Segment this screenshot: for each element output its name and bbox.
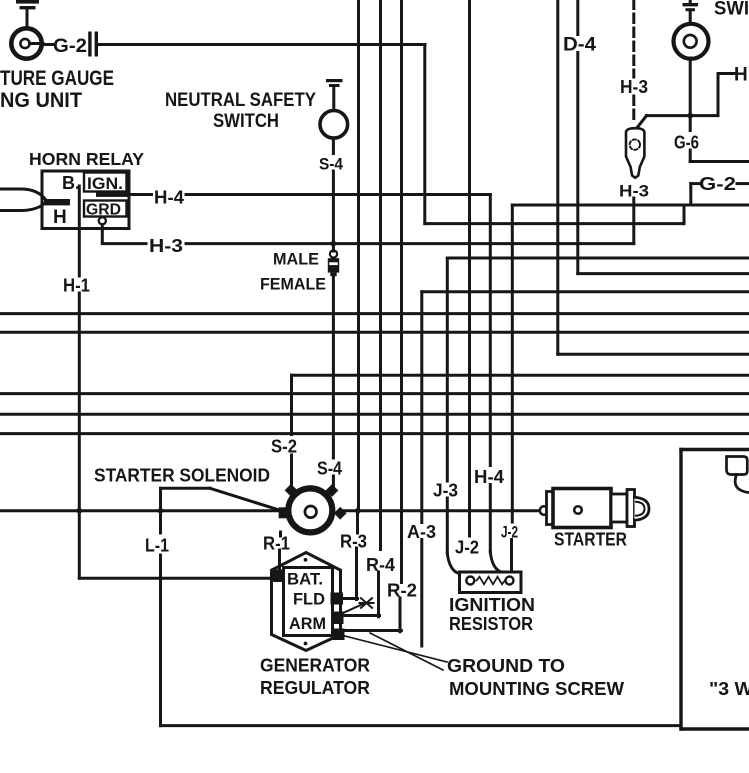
leader line to ground note (b)	[370, 633, 443, 670]
wire column H-4 x=490.3	[490, 195, 505, 576]
svg-text:J-3: J-3	[433, 481, 458, 501]
wire R-1 column x=280	[280, 532, 281, 570]
svg-text:ARM: ARM	[289, 615, 326, 633]
connector (bulkhead double-bar)	[88, 32, 98, 57]
starter solenoid	[279, 484, 347, 532]
wire battery feed y=510.8 left	[0, 509, 279, 512]
svg-text:J-2: J-2	[455, 538, 479, 558]
svg-text:R-1: R-1	[263, 534, 290, 554]
svg-text:SWITCH: SWITCH	[213, 111, 279, 132]
wire column A-3 x=421.8	[420, 292, 423, 646]
plug wires entering horn relay from left	[0, 189, 70, 211]
junction dot R-3 tap / feed	[354, 507, 362, 515]
wire column J-3 x=447.3	[447, 258, 466, 578]
svg-text:STARTER SOLENOID: STARTER SOLENOID	[94, 466, 270, 486]
wire ignition switch column x=690.2	[690, 58, 749, 162]
wire gauge G-2 vertical x=424.8	[423, 45, 426, 224]
wire dashed H-3 column x=633.8	[632, 0, 635, 124]
svg-text:NEUTRAL SAFETY: NEUTRAL SAFETY	[165, 90, 316, 111]
junction dot L-1 / feed	[157, 507, 165, 515]
wire bus y=332.2	[0, 331, 749, 334]
svg-text:IGNITION: IGNITION	[449, 595, 535, 615]
wire bus y=393.6	[0, 392, 749, 395]
svg-text:RESISTOR: RESISTOR	[449, 614, 533, 634]
wire bus y=433.6	[0, 432, 749, 435]
wire H-1 to BAT y=578.2	[79, 577, 272, 580]
wire G-2 horizontal y=44.5	[98, 43, 425, 46]
wire H-4 horizontal y=194.5	[128, 193, 490, 196]
wire feed solenoid to starter y=510.8	[342, 509, 541, 512]
wire bullet to H-3 lower x=633.8	[632, 198, 635, 244]
wire gauge to G-2 label	[42, 43, 53, 46]
svg-text:STARTER: STARTER	[554, 530, 627, 550]
svg-text:FLD: FLD	[293, 591, 325, 609]
svg-text:SWI: SWI	[714, 0, 749, 20]
wire GRD down to H-3	[101, 225, 104, 243]
wire column x=557.8	[556, 0, 559, 354]
svg-text:S-4: S-4	[319, 155, 343, 174]
wire H-4 stub from IGN	[96, 192, 128, 197]
ignition key symbol	[727, 457, 749, 493]
wire column R-3 feed x=358.5	[343, 0, 359, 600]
starter motor	[540, 489, 649, 528]
wire y=354.2	[558, 353, 749, 356]
wire y=258	[447, 257, 749, 260]
wire stub x=684	[683, 205, 686, 224]
svg-text:H-3: H-3	[620, 77, 648, 97]
large box lower right	[681, 450, 749, 730]
wire bottom y=725.6	[161, 724, 682, 727]
regulator BAT terminal	[273, 570, 285, 583]
svg-text:H-4: H-4	[474, 467, 504, 487]
wire column R-4 feed x=380.5	[344, 0, 381, 617]
svg-text:H-3: H-3	[149, 236, 183, 256]
svg-text:G-6: G-6	[674, 133, 699, 153]
svg-text:D-4: D-4	[563, 35, 596, 56]
wire H-1 column lower	[78, 293, 81, 578]
svg-text:FEMALE: FEMALE	[260, 275, 326, 294]
svg-text:B.: B.	[62, 173, 80, 193]
svg-text:GROUND TO: GROUND TO	[447, 656, 565, 676]
wire G-2 right label bracket	[691, 184, 749, 205]
wire column J-2a x=469.5	[468, 0, 471, 536]
svg-text:REGULATOR: REGULATOR	[260, 678, 370, 698]
horn relay GRD terminal box	[84, 201, 127, 217]
svg-text:J-2: J-2	[501, 523, 518, 542]
wire bus y=313.6	[0, 312, 749, 315]
wire S-4 below switch	[332, 138, 335, 153]
wire H-3 horizontal y=243.6	[102, 242, 634, 245]
ground (above ignition switch, top right)	[683, 0, 699, 24]
svg-text:IGN.: IGN.	[87, 175, 123, 193]
wire y=375.2	[292, 374, 749, 377]
gauge sending unit circle	[11, 28, 43, 58]
svg-text:NG UNIT: NG UNIT	[0, 89, 82, 112]
svg-text:G-2: G-2	[699, 174, 736, 194]
regulator FLD terminal	[331, 593, 344, 605]
junction dot S-4/H-3	[329, 240, 337, 248]
ground (above temperature gauge sending unit)	[16, 0, 39, 27]
wire H at top right	[637, 74, 734, 129]
wire column L-1 x=160.5	[159, 488, 162, 725]
svg-text:BAT.: BAT.	[287, 571, 323, 589]
wire column R-2 feed x=401.5	[345, 0, 402, 632]
svg-text:MALE: MALE	[273, 250, 319, 269]
svg-text:R-2: R-2	[387, 581, 417, 601]
svg-text:H-1: H-1	[63, 276, 90, 296]
wire L-1 top horizontal and diagonal to solenoid	[161, 488, 278, 509]
male-female connector on S-4 wire	[328, 250, 339, 276]
svg-text:HORN RELAY: HORN RELAY	[29, 149, 144, 169]
regulator ARM terminal	[332, 612, 344, 625]
svg-text:A-3: A-3	[407, 522, 436, 542]
neutral safety switch circle	[320, 111, 348, 139]
regulator lower (ground) terminal	[332, 629, 345, 641]
svg-text:H: H	[734, 65, 748, 86]
svg-text:H-4: H-4	[154, 188, 184, 208]
svg-text:MOUNTING SCREW: MOUNTING SCREW	[449, 679, 624, 699]
horn relay box	[42, 171, 129, 229]
wire y=223.6	[425, 222, 684, 225]
junction dot H-1 / feed	[75, 507, 83, 515]
wire column J-2b x=512.3	[510, 205, 514, 572]
wire y=205 to right edge	[512, 204, 749, 207]
svg-text:G-2: G-2	[53, 36, 87, 57]
svg-text:S-2: S-2	[271, 437, 297, 457]
svg-text:TURE GAUGE: TURE GAUGE	[0, 67, 114, 90]
svg-text:GENERATOR: GENERATOR	[260, 656, 370, 676]
bullet connector H-3	[626, 128, 644, 178]
wire bus y=414.2	[0, 413, 749, 416]
generator regulator hexagon	[272, 553, 341, 651]
wire column D-4 x=577.8	[576, 0, 579, 274]
svg-text:R-3: R-3	[340, 532, 367, 552]
wire D-4 y=273.6	[578, 272, 749, 275]
asterisk junction mark	[343, 598, 374, 613]
junction dot switch column / H wire	[686, 112, 694, 120]
svg-text:H-3: H-3	[619, 182, 649, 201]
wire S-4 column mid	[332, 171, 335, 487]
svg-text:"3 W: "3 W	[709, 679, 749, 699]
svg-text:GRD: GRD	[86, 202, 121, 219]
svg-text:L-1: L-1	[145, 536, 169, 556]
horn relay GRD terminal circle	[99, 217, 106, 224]
wire y=291.8	[422, 290, 749, 293]
wire column S-2 x=291.5	[290, 375, 293, 486]
leader line to ground note (a)	[345, 636, 447, 662]
svg-text:H: H	[53, 207, 67, 228]
ground (above neutral safety switch)	[326, 79, 343, 110]
horn relay IGN terminal box	[84, 173, 127, 192]
ignition switch circle	[674, 24, 709, 59]
svg-text:R-4: R-4	[366, 555, 395, 575]
svg-text:S-4: S-4	[317, 459, 342, 479]
wire B terminal down (H-1 upper)	[78, 186, 81, 276]
ignition resistor	[460, 572, 522, 593]
